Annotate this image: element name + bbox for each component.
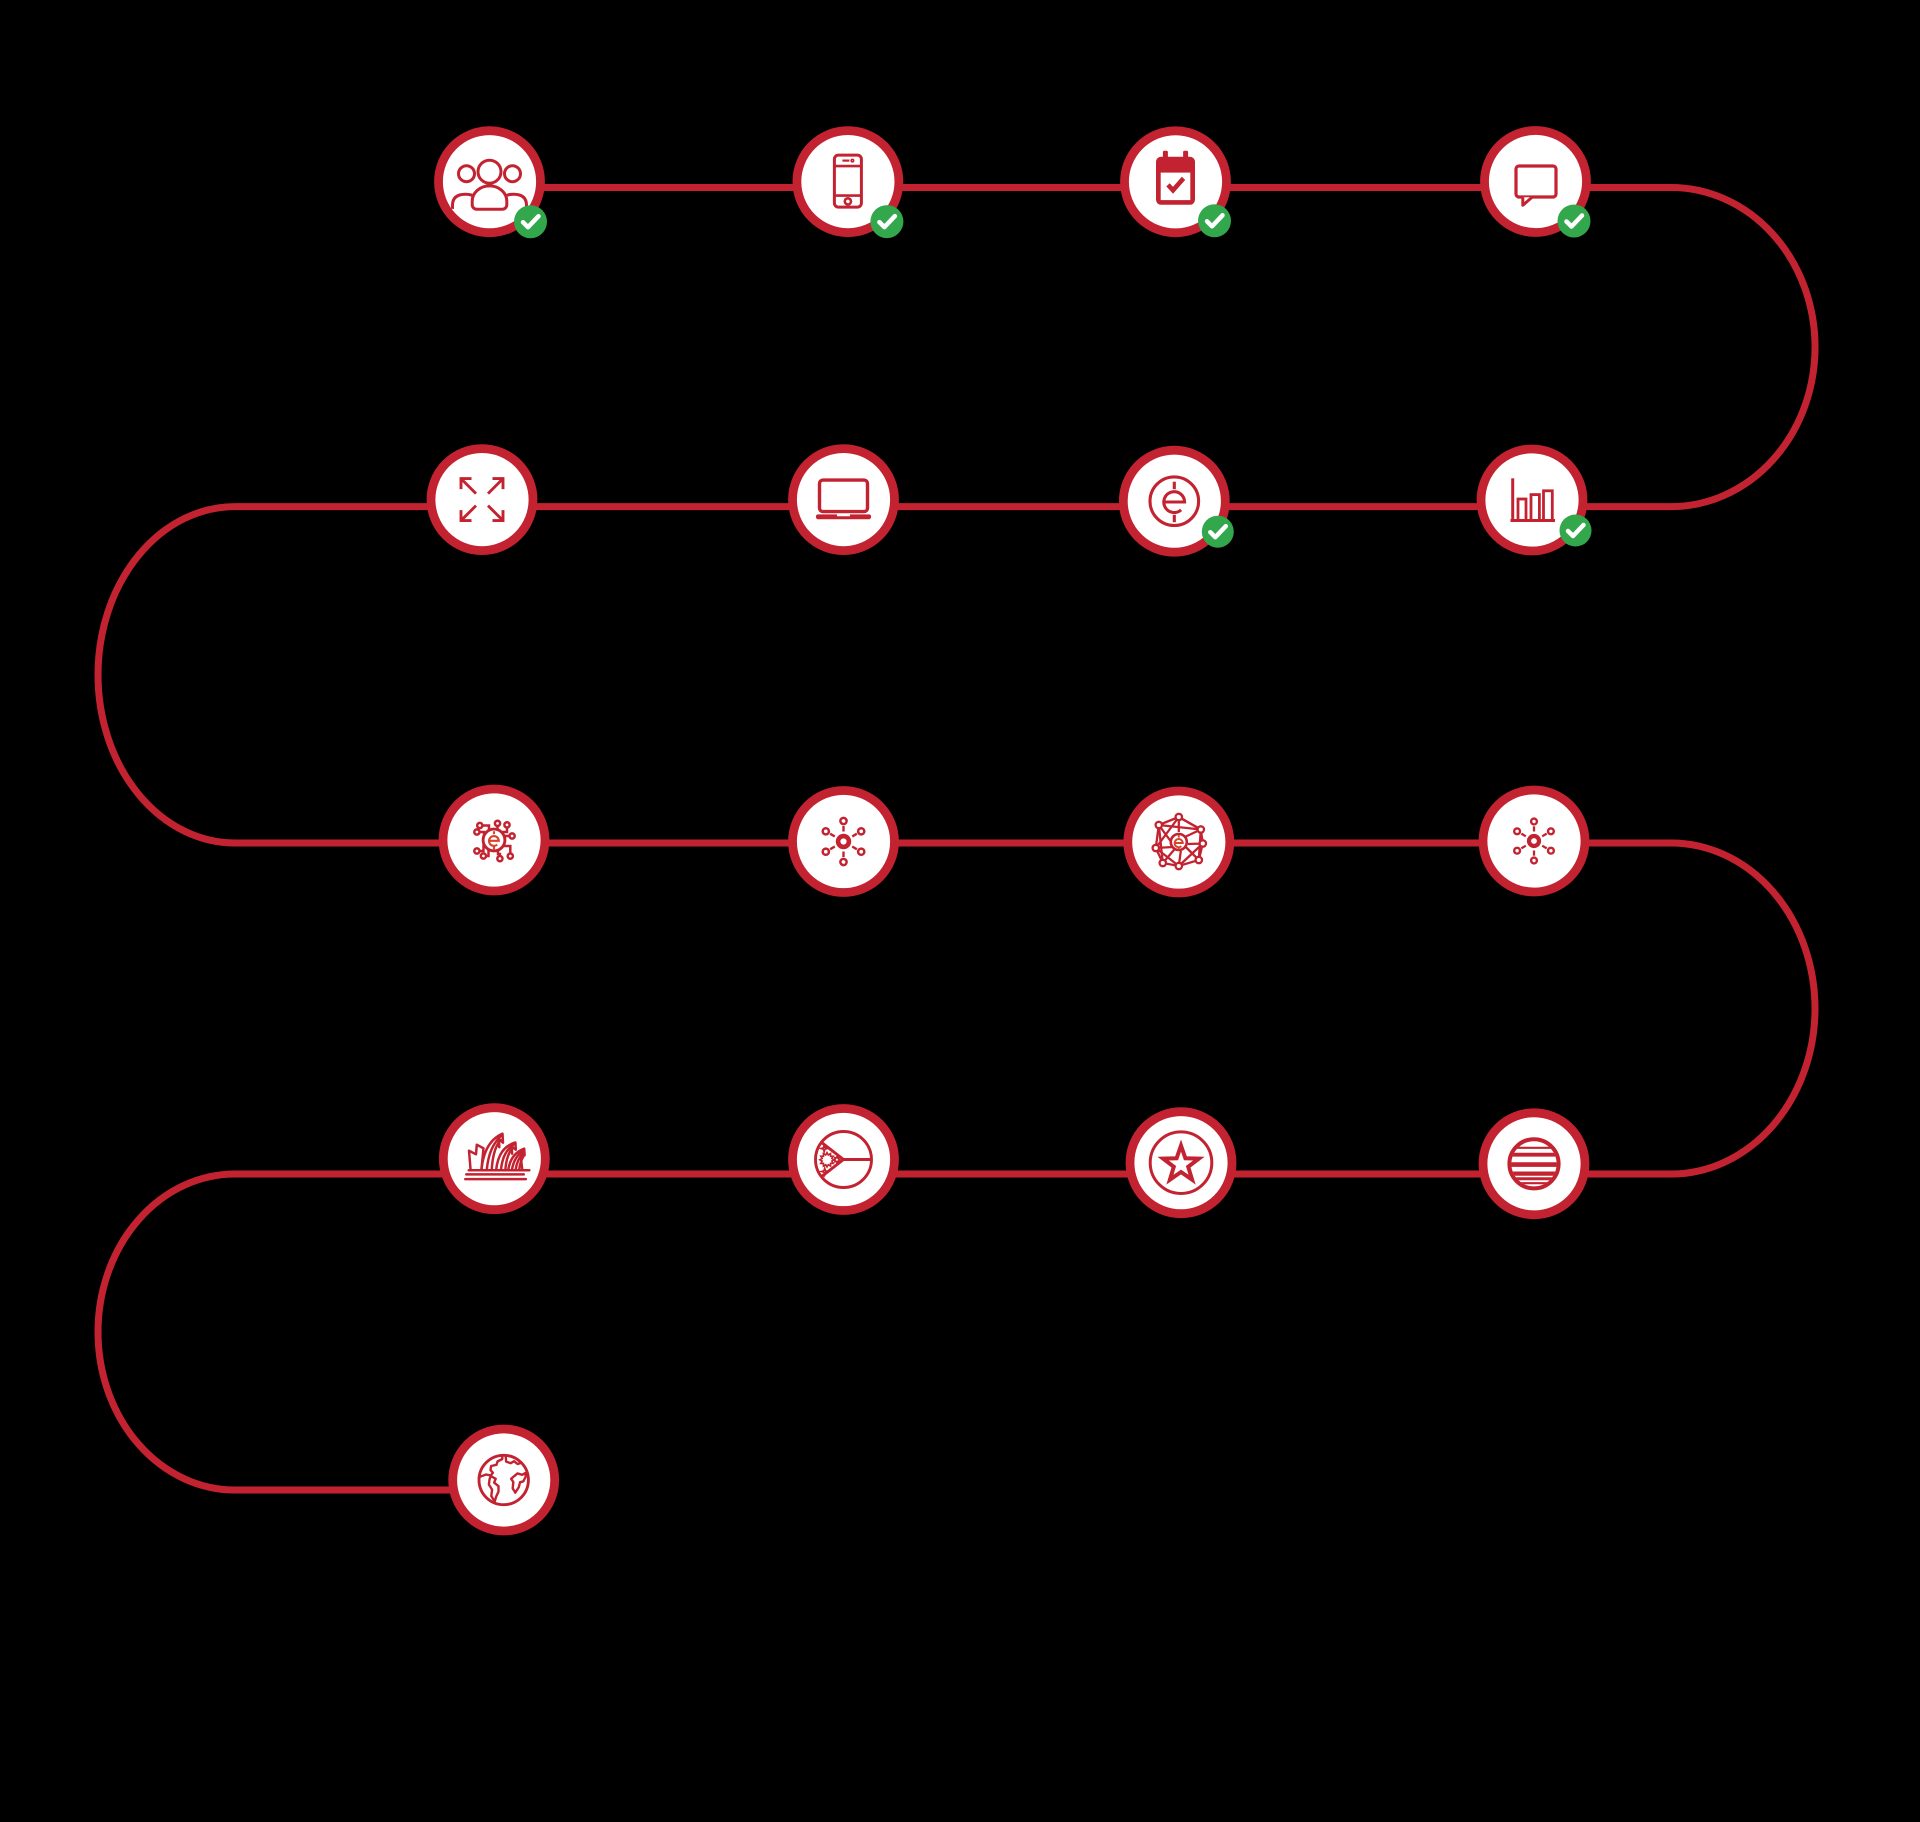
wire: snake connector path: [98, 188, 1815, 1491]
check badge: [1202, 516, 1234, 548]
node 13: opera house: [443, 1108, 545, 1210]
check badge: [1560, 515, 1592, 547]
node 8: bar chart (completed): [1481, 449, 1592, 551]
check badge: [1558, 205, 1591, 238]
node 9: e circuit chip: [443, 789, 545, 891]
node 17: earth globe: [453, 1429, 555, 1531]
node 5: expand arrows: [431, 449, 533, 551]
node 16: striped globe: [1483, 1113, 1585, 1215]
node 2: smartphone (completed): [797, 131, 904, 239]
node 4: chat bubble (completed): [1485, 131, 1591, 238]
check badge: [514, 205, 547, 238]
node 10: hub and spokes: [793, 791, 895, 893]
check badge: [870, 205, 903, 238]
node 11: e neural network: [1128, 791, 1230, 893]
node 3: calendar check (completed): [1125, 131, 1232, 238]
node 7: e-coin (completed): [1123, 450, 1234, 552]
node 12: hub and spokes 2: [1483, 790, 1585, 892]
node 15: star medal: [1130, 1112, 1232, 1214]
node 1: team/people (completed): [439, 131, 548, 239]
node 14: pie chart with fireworks: [793, 1109, 895, 1211]
node 6: laptop: [793, 449, 895, 551]
check badge: [1198, 204, 1231, 237]
